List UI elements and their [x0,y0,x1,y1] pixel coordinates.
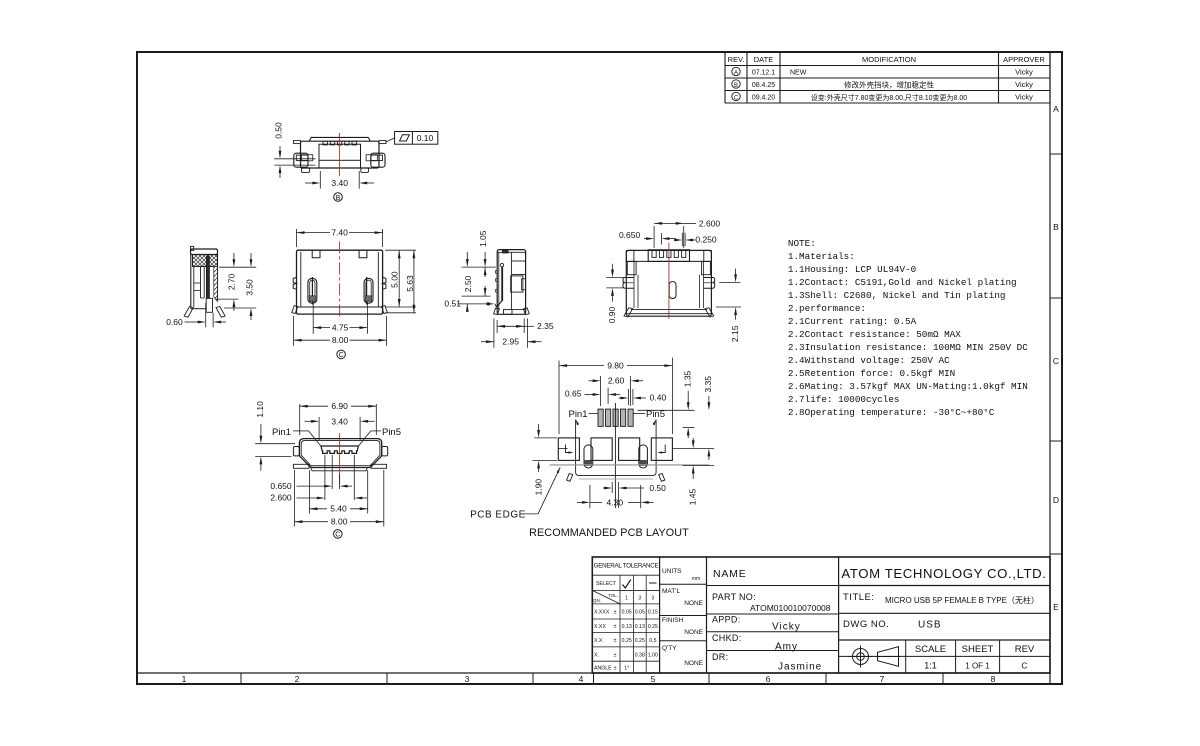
view C bottom left foot [292,306,298,314]
side view inner verticals [499,252,512,309]
dim 1.45 right of pcb view [683,438,715,505]
svg-text:APPD:: APPD: [712,615,741,625]
svg-text:Vicky: Vicky [772,622,801,633]
dim 0.51 of side view [444,299,494,312]
svg-text:3.35: 3.35 [703,376,713,393]
svg-text:1.00: 1.00 [648,653,658,659]
dim 0.250 of rear view [674,233,717,247]
svg-text:Jasmine: Jasmine [778,662,822,673]
svg-text:0.50: 0.50 [649,483,666,493]
pcb right stadium leg [639,445,648,468]
svg-text:7: 7 [880,674,885,684]
pcb edge line [550,464,710,466]
svg-text:0.60: 0.60 [166,317,183,327]
svg-text:NONE: NONE [684,629,703,636]
svg-text:2.35: 2.35 [537,321,554,331]
svg-text:8.00: 8.00 [332,335,349,345]
svg-text:QN.: QN. [593,598,601,603]
dim 2.60 of pcb view [589,376,644,407]
svg-text:0.25: 0.25 [635,638,645,644]
notes text block [788,238,1028,418]
revision row B [732,79,1033,89]
svg-text:2.50: 2.50 [463,275,473,292]
svg-text:1.45: 1.45 [687,488,697,505]
svg-text:GENERAL TOLERANCE: GENERAL TOLERANCE [594,563,659,570]
svg-text:3: 3 [652,596,655,602]
dim 4.30 below pcb view [577,485,654,508]
svg-text:NEW: NEW [790,70,807,77]
pcb left stadium leg [584,445,593,468]
units column text [662,568,704,667]
svg-text:设变:外壳尺寸7.80变更为8.00,尺寸8.10变更为8.: 设变:外壳尺寸7.80变更为8.00,尺寸8.10变更为8.00 [811,93,967,102]
rear view pins [652,250,686,257]
pcb right big pad [651,438,672,461]
svg-text:1.35: 1.35 [683,370,693,387]
dim 2.600 above rear view [654,218,720,248]
mating view left tab [293,447,299,456]
svg-text:4.75: 4.75 [332,323,349,333]
svg-text:0.13: 0.13 [635,624,645,630]
dim 0.40 of pcb view [619,389,667,405]
section right leg [216,307,225,318]
general tolerance table grid [592,557,659,673]
svg-text:1: 1 [182,674,187,684]
section left leg [184,307,193,318]
pcb centerline [614,403,616,508]
rear view center slot [669,282,676,299]
svg-text:±: ± [614,624,617,630]
label Pin5 of mating view [358,427,401,446]
dim 2.35 of side view [497,318,554,333]
dim 3.40 below view B [305,171,374,189]
revision row A [732,67,1033,76]
svg-text:2.1Current rating: 0.5A: 2.1Current rating: 0.5A [788,316,917,327]
svg-text:±: ± [614,610,617,616]
sheet outer border [137,52,1062,684]
dim 1.10 left of mating view [255,401,295,471]
svg-text:USB: USB [918,620,942,631]
rear view bottom lines [626,310,711,314]
svg-text:1 OF 1: 1 OF 1 [965,662,990,671]
side view top notch [503,250,508,253]
name column grid [707,557,839,673]
units column grid [660,557,707,673]
svg-text:B: B [1053,222,1059,232]
svg-text:2.15: 2.15 [730,325,740,342]
svg-text:E: E [1053,602,1059,612]
dim 9.80 above pcb view [559,358,672,434]
section body walls [191,255,218,309]
svg-text:0.25: 0.25 [648,624,658,630]
side view left wall bumps [496,271,498,293]
view B left mount tab [294,141,301,144]
svg-text:SHEET: SHEET [962,644,994,655]
svg-text:2.5Retention force: 0.5kgf MIN: 2.5Retention force: 0.5kgf MIN [788,368,955,379]
mating view tongue with pins [321,446,358,453]
svg-text:Vicky: Vicky [1015,68,1033,77]
label Pin5 of pcb view [633,409,665,420]
svg-text:0.650: 0.650 [619,230,641,240]
dim 2.70 of section view [215,253,256,311]
svg-text:C: C [1053,356,1059,366]
view B red centerline [338,133,340,176]
caption RECOMMANDED PCB LAYOUT [529,527,689,539]
third angle projection symbol [849,646,902,668]
svg-text:0.15: 0.15 [648,610,658,616]
side view right blocks [511,261,526,310]
svg-text:MAT'L: MAT'L [662,588,680,595]
svg-text:X.: X. [594,653,599,659]
svg-text:ATOM010010070008: ATOM010010070008 [750,603,831,613]
svg-text:CHKD:: CHKD: [712,633,742,643]
view B terminal pins [323,141,356,145]
svg-text:1.Materials:: 1.Materials: [788,251,855,262]
view C bottom inner line [297,306,383,308]
svg-text:2.2Contact resistance: 50mΩ MA: 2.2Contact resistance: 50mΩ MAX [788,329,961,340]
svg-text:3.40: 3.40 [331,178,348,188]
view C label circle C [337,350,346,359]
svg-text:2.performance:: 2.performance: [788,303,866,314]
svg-text:2.600: 2.600 [270,493,292,503]
dim 2.600 below mating view [270,455,367,503]
pcb small pads row [598,409,633,426]
dim 3.40 above mating view [305,416,375,440]
pcb middle left pad [591,438,612,461]
svg-text:ATOM TECHNOLOGY CO.,LTD.: ATOM TECHNOLOGY CO.,LTD. [841,566,1046,581]
svg-text:REV: REV [1015,644,1035,655]
svg-text:0.13: 0.13 [622,624,632,630]
svg-text:0.05: 0.05 [635,610,645,616]
svg-text:2: 2 [295,674,300,684]
label Pin1 of mating view [272,427,321,446]
svg-text:5.63: 5.63 [405,275,415,292]
svg-text:0.250: 0.250 [695,235,717,245]
svg-text:D: D [1053,495,1059,505]
svg-text:PCB EDGE: PCB EDGE [470,509,526,520]
svg-text:1.3Shell: C2680, Nickel and Ti: 1.3Shell: C2680, Nickel and Tin plating [788,290,1006,301]
svg-text:ANGLE: ANGLE [594,666,612,672]
dwg no text [843,619,942,631]
svg-text:2.8Operating temperature: -30°: 2.8Operating temperature: -30°C~+80°C [788,407,995,418]
side view contact pin [495,263,504,307]
svg-text:0.38: 0.38 [635,653,645,659]
svg-text:2.7life: 10000cycles: 2.7life: 10000cycles [788,394,900,405]
svg-text:Pin5: Pin5 [382,427,401,438]
dim 5.00 right of view C [385,250,416,307]
rear view sub blocks [627,261,710,274]
right zone letters A-E [1053,104,1059,612]
rear view right wing [704,278,715,289]
svg-text:PART NO:: PART NO: [712,592,756,602]
svg-text:Vicky: Vicky [1015,80,1033,89]
right zone tick marks [1050,154,1062,554]
svg-text:3: 3 [638,596,641,602]
view B body outline [301,141,380,168]
svg-text:Amy: Amy [775,642,798,653]
svg-text:0.40: 0.40 [650,393,667,403]
mating view shell inner outline [301,440,380,465]
svg-text:mm: mm [692,576,700,582]
general tolerance table text [592,563,659,672]
side view top cap line [497,251,525,253]
svg-text:±: ± [614,638,617,644]
svg-text:0.10: 0.10 [417,133,434,143]
svg-text:NOTE:: NOTE: [788,238,816,249]
svg-text:1.10: 1.10 [255,401,265,418]
svg-text:0.65: 0.65 [565,388,582,398]
svg-text:TOL.: TOL. [608,593,618,598]
dim 1.90 left of pcb view [532,424,557,495]
svg-text:NAME: NAME [713,568,747,580]
svg-text:1.2Contact: C5191,Gold and Nic: 1.2Contact: C5191,Gold and Nickel platin… [788,277,1017,288]
svg-text:5.40: 5.40 [330,504,347,514]
dim 8.00 below mating view [295,470,384,527]
svg-text:±: ± [614,653,617,659]
svg-text:±: ± [614,666,617,672]
svg-text:0.90: 0.90 [607,306,617,323]
dim 8.00 below view C [294,316,387,346]
svg-text:NONE: NONE [684,600,703,607]
scale sheet rev cells [915,644,1035,671]
bottom zone tick marks [241,673,943,684]
section crosshatched shell top [193,255,218,267]
svg-text:修改外壳挡块，增加稳定性: 修改外壳挡块，增加稳定性 [844,79,934,89]
dim 0.65 of pcb view [565,388,620,404]
svg-text:3.40: 3.40 [331,416,348,426]
name column text [712,568,831,673]
svg-text:0.50: 0.50 [273,122,283,139]
dim 1.05 of side view [462,230,496,267]
svg-text:7.40: 7.40 [331,228,348,238]
side view bottom legs [494,308,530,315]
view B label circle B [334,193,343,202]
svg-text:MODIFICATION: MODIFICATION [862,55,916,64]
company name [841,566,1046,581]
flatness tolerance callout 0.10 [386,132,438,145]
dim 0.50 of pcb view [603,482,666,508]
svg-text:2.95: 2.95 [502,337,519,347]
svg-text:X.XX: X.XX [594,624,606,630]
company section grid [839,586,1050,674]
svg-text:0.51: 0.51 [444,299,461,309]
dim 4.75 below view C [313,302,367,334]
svg-text:0.650: 0.650 [270,481,292,491]
rear view left wing [623,278,634,289]
mating view shell outer outline [299,439,381,468]
svg-text:2.6Mating: 3.57kgf MAX UN-Mat: 2.6Mating: 3.57kgf MAX UN-Mating:1.0kgf … [788,381,1028,392]
svg-text:C: C [339,352,344,359]
svg-text:08.4.25: 08.4.25 [752,82,775,89]
dim 1.35 right of pcb view [638,370,695,438]
mating view bottom feet [293,464,386,468]
svg-text:4.30: 4.30 [607,497,624,507]
view C right slot [364,277,373,305]
svg-text:07.12.1: 07.12.1 [752,70,775,77]
rear view bottom legs [624,308,714,317]
svg-text:TITLE:: TITLE: [843,592,875,603]
svg-text:DATE: DATE [754,55,773,64]
svg-text:DR:: DR: [712,652,728,662]
svg-text:1°: 1° [624,666,629,672]
svg-text:Pin1: Pin1 [272,427,291,438]
pcb middle right pad [619,438,640,461]
view C bottom right foot [382,306,388,314]
svg-text:UNITS: UNITS [662,568,682,575]
svg-text:3: 3 [465,674,470,684]
svg-text:C: C [734,95,739,101]
svg-text:A: A [734,70,738,76]
view B top lid [309,137,370,141]
pcb connector outline overlay [567,419,665,481]
svg-text:1:1: 1:1 [924,661,937,671]
svg-text:NONE: NONE [684,660,703,667]
svg-text:0.5: 0.5 [649,638,656,644]
revision row C [732,92,1033,102]
svg-text:B: B [336,195,341,202]
view C inner wall lines [301,252,379,307]
dim 3.50 of section view [224,253,256,320]
svg-text:DWG NO.: DWG NO. [843,619,889,630]
view C left slot [308,277,317,305]
svg-text:Vicky: Vicky [1015,93,1033,102]
dim 0.650 below mating view [270,455,352,491]
dim 3.35 right of pcb view [672,376,714,460]
rear view red centerline [668,243,670,319]
svg-text:2.60: 2.60 [608,376,625,386]
title block outer frame [592,557,1050,673]
rear view corner blocks [626,250,711,261]
view B right wing [366,153,385,167]
rear view inner verticals [634,261,704,308]
svg-text:SCALE: SCALE [915,644,946,655]
section inner housing lines [194,266,204,298]
svg-text:X.X: X.X [594,638,603,644]
svg-text:1.90: 1.90 [533,479,543,496]
mating view label circle C [334,530,343,539]
side view body outline [497,250,525,315]
svg-text:APPROVER: APPROVER [1003,55,1045,64]
svg-text:6.90: 6.90 [331,401,348,411]
svg-text:9.80: 9.80 [607,361,624,371]
svg-text:0.05: 0.05 [622,610,632,616]
revision table grid [725,53,1050,104]
svg-text:8: 8 [991,674,996,684]
view B bottom solder tabs [301,168,368,172]
svg-text:C: C [335,532,340,539]
svg-text:5: 5 [651,674,656,684]
svg-text:Pin1: Pin1 [568,409,587,420]
view C right side bump [383,277,386,289]
section pin tail [206,298,212,312]
svg-text:B: B [734,83,738,89]
mating view bottom plate [311,468,368,471]
view B inner cavity [319,144,361,168]
svg-text:8.00: 8.00 [331,517,348,527]
svg-text:FINISH: FINISH [662,617,684,624]
section contact pin dark bar [206,256,209,298]
dim 2.50 of side view [462,267,491,296]
svg-text:A: A [1053,104,1059,114]
dim 6.90 above mating view [300,401,377,435]
view C body outline [297,250,383,314]
dim 2.15 right of rear view [716,269,741,342]
bottom zone numbers 1-8 [182,674,996,684]
view C top notches [312,250,367,258]
svg-text:4: 4 [579,674,584,684]
dim 0.50 left of view B [273,122,315,178]
pcb left big pad [558,438,579,461]
mating view right tab [382,447,388,456]
rear view top raised block [648,250,689,262]
sheet inner right column line [1049,52,1051,684]
view B right mount tab [379,141,386,144]
svg-text:MICRO USB 5P FEMALE B TYPE（无柱）: MICRO USB 5P FEMALE B TYPE（无柱） [885,595,1039,605]
svg-text:2.600: 2.600 [699,218,721,228]
mating view red centerline [339,433,341,483]
svg-text:X.XXX: X.XXX [594,610,610,616]
dim 0.60 of section view [166,303,226,327]
dim 5.40 below mating view [309,470,367,514]
svg-text:2.4Withstand voltage: 250V AC: 2.4Withstand voltage: 250V AC [788,355,950,366]
svg-text:1.05: 1.05 [478,230,488,247]
view B left wing [294,153,313,167]
dim 0.650 of rear view [619,230,676,245]
svg-text:RECOMMANDED PCB LAYOUT: RECOMMANDED PCB LAYOUT [529,527,689,539]
svg-text:1: 1 [625,596,628,602]
label Pin1 of pcb view [568,409,598,420]
svg-text:09.4.20: 09.4.20 [752,95,775,102]
sheet inner bottom strip line [137,672,1050,674]
svg-text:1.1Housing: LCP UL94V-0: 1.1Housing: LCP UL94V-0 [788,264,916,275]
dim 5.63 right of view C [385,250,416,313]
dim 2.95 of side view [481,318,542,347]
svg-text:2.70: 2.70 [227,273,237,290]
revision table headers [728,55,1046,64]
view C left side bump [293,277,296,289]
svg-text:0.25: 0.25 [622,638,632,644]
rear view body outline [626,250,711,316]
label PCB EDGE [470,467,560,520]
svg-text:SELECT: SELECT [596,581,617,587]
section hatched right wall [214,266,218,301]
svg-text:REV.: REV. [728,55,745,64]
svg-text:3.50: 3.50 [244,279,254,296]
svg-text:6: 6 [766,674,771,684]
svg-text:2.3Insulation resistance: 100M: 2.3Insulation resistance: 100MΩ MIN 250V… [788,342,1028,353]
title text [843,592,1039,605]
dim 0.90 left of rear view [606,264,624,323]
svg-text:Q'TY: Q'TY [662,645,677,652]
section top cap [191,246,218,254]
dim 7.40 above view C [297,228,383,248]
view C red centerline [339,241,341,316]
svg-text:C: C [1021,661,1027,671]
svg-text:5.00: 5.00 [390,271,400,288]
